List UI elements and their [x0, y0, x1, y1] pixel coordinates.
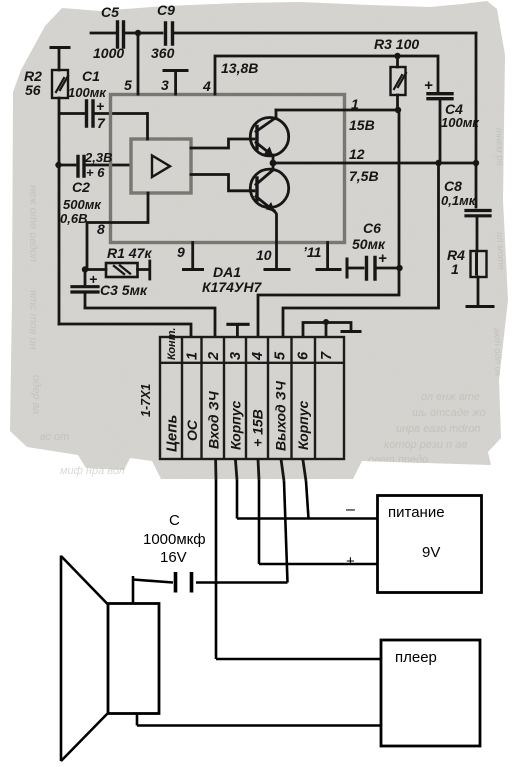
svg-text:DA1: DA1	[213, 264, 241, 280]
schematic text labels	[24, 2, 480, 298]
node R3 top junction	[394, 53, 400, 59]
op-amp triangle	[152, 156, 170, 178]
resistor R1	[106, 263, 138, 277]
wire ground to battery minus	[237, 480, 377, 519]
battery box	[378, 496, 482, 593]
resistor R4	[471, 251, 487, 277]
svg-text:питание: питание	[388, 504, 445, 521]
wire +15V to battery plus	[259, 480, 377, 564]
capacitor C9	[166, 23, 173, 44]
player box	[381, 640, 480, 746]
svg-text:C9: C9	[157, 2, 175, 18]
capacitor C2	[61, 164, 75, 167]
wire amp to Q2 base	[191, 175, 254, 191]
svg-text:4: 4	[250, 352, 266, 361]
node Q1/Q2 output junction	[270, 160, 277, 167]
svg-text:одер ва: одер ва	[30, 375, 42, 414]
svg-text:Цепь: Цепь	[164, 415, 181, 452]
scanned paper background	[10, 1, 508, 479]
wire korpus slant	[306, 481, 309, 519]
node top junction	[135, 30, 141, 36]
svg-text:C2: C2	[72, 179, 90, 195]
svg-text:100мк: 100мк	[441, 115, 480, 130]
svg-text:1: 1	[185, 352, 201, 360]
wire input to player	[216, 480, 381, 659]
svg-text:Корпус: Корпус	[228, 400, 244, 450]
svg-text:1: 1	[351, 96, 359, 112]
wire to connector pin2	[85, 308, 215, 336]
svg-text:+: +	[89, 271, 97, 287]
svg-text:1000мкф: 1000мкф	[143, 531, 206, 548]
svg-text:7: 7	[97, 115, 106, 131]
svg-text:C5: C5	[101, 4, 119, 20]
svg-text:+: +	[346, 553, 355, 570]
capacitor C6	[349, 267, 363, 270]
svg-text:0,1мк: 0,1мк	[441, 193, 477, 208]
svg-text:+: +	[424, 77, 433, 94]
svg-text:C8: C8	[444, 178, 462, 194]
resistor R2	[51, 46, 69, 49]
svg-text:ятс тов ин: ятс тов ин	[27, 289, 39, 350]
node C4 bottom junction	[435, 160, 441, 166]
wire pin4 to 13.8V rail	[215, 56, 438, 94]
IC DA1 box outline	[111, 95, 345, 243]
wire amp to Q1 base	[191, 139, 254, 148]
svg-text:Вход ЗЧ: Вход ЗЧ	[206, 390, 222, 449]
wire pin8 internal	[110, 193, 148, 223]
svg-text:С: С	[169, 512, 180, 529]
node R3 bottom junction	[395, 107, 401, 113]
transistor Q2	[250, 169, 288, 207]
capacitor C8	[466, 211, 490, 216]
wire to connector pin1	[59, 324, 191, 336]
wire pin1 15V line	[276, 109, 398, 112]
svg-text:13,8В: 13,8В	[221, 60, 258, 76]
node C6 junction	[396, 265, 402, 271]
wire pin5	[137, 36, 140, 94]
terminal C6 left bar	[346, 259, 349, 277]
transistor Q1	[250, 118, 288, 156]
svg-text:5: 5	[124, 77, 132, 93]
ghost bleedthrough text right margin	[40, 128, 506, 466]
svg-text:4: 4	[202, 78, 211, 94]
svg-text:тнем ре: тнем ре	[493, 128, 505, 166]
wire right rail down	[475, 33, 478, 207]
wire pin10 emitter down	[275, 211, 277, 268]
wire pin11	[326, 243, 329, 269]
op-amp block square	[131, 139, 191, 193]
wire pin7 internal	[146, 114, 149, 140]
svg-text:1000: 1000	[93, 45, 124, 61]
ground terminal connector pin3	[228, 323, 248, 326]
speaker magnet box	[108, 604, 159, 714]
svg-text:3: 3	[228, 352, 244, 360]
wire cap to speaker	[133, 576, 173, 603]
svg-text:+: +	[378, 250, 387, 267]
node feedback junction	[82, 266, 88, 272]
svg-text:C6: C6	[363, 220, 381, 236]
svg-text:плеер: плеер	[395, 649, 437, 666]
svg-text:ил моте: ил моте	[494, 232, 506, 271]
svg-text:6: 6	[296, 351, 312, 360]
ground pin10 bar	[265, 268, 289, 271]
ground pin9 bar	[184, 268, 203, 271]
svg-text:12: 12	[349, 146, 365, 162]
svg-text:–: –	[346, 501, 355, 518]
ground pin3 terminal	[164, 69, 187, 72]
wire C4 to output rail	[283, 166, 439, 336]
svg-text:9: 9	[177, 244, 185, 260]
ghost bleedthrough text left margin	[27, 185, 42, 414]
svg-text:миф нра вол: миф нра вол	[60, 465, 125, 477]
svg-text:7: 7	[319, 351, 335, 360]
capacitor C3	[84, 272, 87, 285]
svg-text:8: 8	[97, 221, 105, 237]
svg-text:Выход ЗЧ: Выход ЗЧ	[273, 380, 289, 451]
speaker cone	[61, 556, 108, 762]
svg-text:7,5В: 7,5В	[349, 168, 379, 184]
svg-text:+: +	[96, 98, 104, 114]
svg-text:ОС: ОС	[184, 419, 200, 441]
svg-text:360: 360	[151, 45, 175, 61]
svg-text:котор рези п ае: котор рези п ае	[384, 439, 467, 451]
svg-text:10: 10	[256, 247, 272, 263]
node jumper junction	[323, 319, 329, 325]
ground chassis bar under R4	[467, 305, 493, 308]
svg-text:C1: C1	[82, 68, 100, 84]
svg-text:0,6В: 0,6В	[60, 211, 87, 226]
svg-text:C3 5мк: C3 5мк	[100, 282, 148, 298]
svg-text:2,3В: 2,3В	[84, 150, 112, 165]
svg-text:Корпус: Корпус	[295, 400, 311, 450]
wire left rail	[58, 98, 61, 324]
svg-text:К174УН7: К174УН7	[202, 279, 263, 295]
svg-text:неж оте ивдоп: неж оте ивдоп	[27, 185, 39, 262]
resistor R3	[396, 59, 399, 67]
wire ground jumper pins 6-7	[303, 323, 351, 337]
wire top rail left stub to C5	[91, 32, 115, 35]
capacitor C5	[118, 22, 124, 47]
svg-text:инрв еазο тdroп: инрв еазο тdroп	[396, 423, 480, 435]
svg-text:1-7X1: 1-7X1	[139, 384, 153, 417]
svg-text:2: 2	[206, 352, 222, 361]
svg-text:ол енж вте: ол енж вте	[421, 391, 480, 403]
svg-text:R1 47к: R1 47к	[107, 245, 152, 261]
svg-text:+ 15В: + 15В	[250, 409, 266, 447]
svg-text:56: 56	[25, 82, 41, 98]
svg-text:5: 5	[273, 351, 289, 360]
lower clean drawing	[61, 480, 482, 761]
svg-text:3: 3	[161, 77, 169, 93]
connector X1 table	[160, 337, 344, 459]
svg-text:+ 6: + 6	[86, 165, 105, 180]
capacitor C 1000uF	[176, 572, 192, 593]
capacitor C4	[428, 94, 452, 99]
wire top rail to right	[175, 32, 476, 35]
node C2 junction	[55, 162, 61, 168]
node right rail junction	[473, 160, 479, 166]
wire output down	[196, 481, 288, 583]
svg-text:1: 1	[451, 261, 459, 277]
svg-text:шь отсаде жо: шь отсаде жо	[412, 407, 486, 419]
svg-text:15В: 15В	[349, 117, 375, 133]
wire pin12 output line	[273, 162, 476, 165]
wire +15V branch	[258, 113, 399, 336]
svg-text:вс от: вс от	[40, 431, 69, 443]
wire pin 8	[87, 223, 110, 268]
wire pin9	[191, 243, 194, 269]
svg-text:Конт.: Конт.	[166, 328, 178, 360]
ground jumper bar	[342, 330, 360, 333]
svg-text:R3 100: R3 100	[374, 36, 419, 52]
svg-text:16V: 16V	[160, 549, 187, 566]
svg-text:ʼ11: ʼ11	[303, 244, 322, 260]
connector rotated labels	[139, 328, 335, 452]
capacitor C1	[60, 112, 84, 115]
ground pin11 bar	[317, 268, 340, 271]
wire speaker to player	[137, 714, 381, 726]
svg-text:9V: 9V	[422, 544, 440, 561]
svg-text:500мк: 500мк	[63, 197, 102, 212]
wires connector pins below (scan)	[216, 459, 306, 481]
